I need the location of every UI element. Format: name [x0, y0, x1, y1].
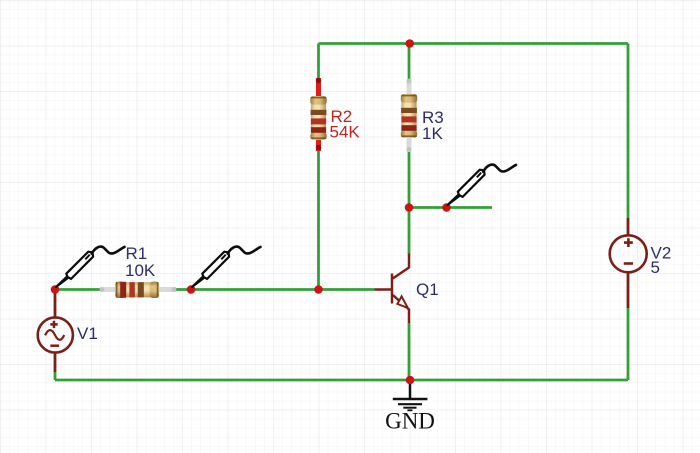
svg-text:1K: 1K [422, 124, 443, 143]
voltage source V2 [610, 218, 647, 308]
transistor Q1 [375, 254, 410, 324]
probe P3 [448, 165, 517, 205]
wire R3 branch bottom [408, 151, 411, 208]
node R2/base junction [314, 285, 323, 294]
wire R2 branch top [317, 44, 320, 80]
node ground junction [406, 376, 415, 385]
probe P1 [56, 247, 125, 287]
wire right rail lower [627, 308, 630, 380]
svg-text:54K: 54K [330, 123, 361, 142]
svg-text:5: 5 [651, 258, 660, 277]
node top rail junction [405, 39, 414, 48]
svg-text:GND: GND [385, 409, 435, 434]
svg-text:10K: 10K [125, 261, 156, 280]
node collector probe junction [442, 203, 451, 212]
wire base horizontal [55, 288, 375, 291]
node V1/R1/probe junction [51, 285, 60, 294]
wire bottom rail [55, 379, 628, 382]
wire collector node horizontal [409, 206, 492, 209]
svg-text:Q1: Q1 [416, 280, 439, 299]
svg-text:V1: V1 [77, 324, 98, 343]
wire top rail [319, 42, 629, 45]
wire right rail upper [627, 44, 630, 219]
probe P2 [192, 247, 261, 287]
ground [393, 380, 428, 410]
wire R2 branch bottom [317, 150, 320, 290]
voltage source V1 [38, 290, 73, 373]
wire V1 to bottom rail [54, 371, 57, 380]
wire emitter to ground [408, 323, 411, 381]
resistor R2 [310, 78, 326, 151]
node collector junction [405, 203, 414, 212]
node R1/base junction [187, 285, 196, 294]
resistor R3 [401, 79, 417, 152]
resistor R1 [100, 282, 177, 298]
wire R3 branch top [408, 44, 411, 81]
transistor Q1 emitter arrow [397, 296, 407, 308]
wire collector vertical [408, 208, 411, 255]
